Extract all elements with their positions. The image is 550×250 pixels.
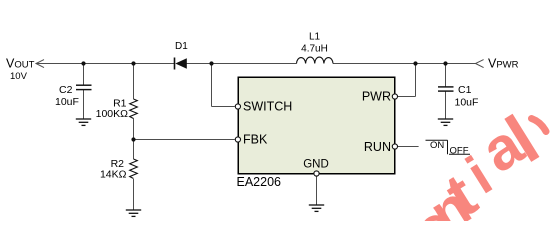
svg-text:GND: GND bbox=[303, 159, 329, 171]
svg-text:ON: ON bbox=[430, 140, 444, 151]
svg-text:10uF: 10uF bbox=[455, 97, 479, 109]
svg-text:VOUT: VOUT bbox=[6, 57, 35, 71]
svg-text:14KΩ: 14KΩ bbox=[100, 168, 127, 180]
svg-text:100KΩ: 100KΩ bbox=[96, 108, 129, 120]
svg-text:OFF: OFF bbox=[450, 145, 469, 156]
svg-text:10uF: 10uF bbox=[55, 96, 79, 108]
svg-text:4.7uH: 4.7uH bbox=[301, 43, 328, 54]
svg-text:L1: L1 bbox=[309, 31, 321, 42]
svg-text:C1: C1 bbox=[458, 84, 472, 96]
svg-text:PWR: PWR bbox=[362, 90, 391, 104]
svg-text:SWITCH: SWITCH bbox=[243, 99, 292, 113]
svg-text:D1: D1 bbox=[175, 41, 188, 52]
svg-text:EA2206: EA2206 bbox=[237, 175, 282, 189]
svg-text:FBK: FBK bbox=[243, 132, 268, 146]
svg-text:C2: C2 bbox=[59, 84, 73, 96]
svg-text:RUN: RUN bbox=[364, 140, 391, 154]
svg-text:VPWR: VPWR bbox=[488, 57, 519, 71]
svg-text:10V: 10V bbox=[10, 71, 28, 82]
